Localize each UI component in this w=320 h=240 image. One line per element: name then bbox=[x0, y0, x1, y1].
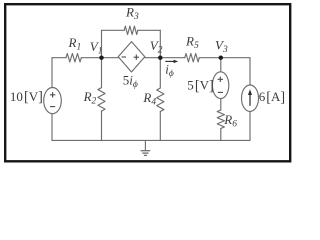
dependent source polarity signs bbox=[122, 55, 139, 60]
wire bottom bbox=[52, 139, 250, 141]
wire top loop right leg bbox=[159, 30, 161, 57]
wire top loop upper left bbox=[102, 29, 125, 31]
wire V1 to R2 bbox=[101, 58, 103, 88]
wire left column upper bbox=[51, 58, 53, 88]
wire R1 to diamond bbox=[81, 57, 118, 59]
resistor R3 bbox=[124, 26, 138, 34]
wire diamond to R5 bbox=[145, 57, 185, 59]
6A source arrow bbox=[248, 89, 252, 106]
wire main left segment bbox=[52, 57, 66, 59]
border frame bbox=[5, 4, 290, 161]
node V3 dot bbox=[219, 55, 224, 60]
5V source polarity bbox=[218, 77, 223, 93]
10V source polarity bbox=[50, 92, 55, 107]
svg-text:5 [V]: 5 [V] bbox=[187, 77, 213, 93]
ground symbol bbox=[141, 151, 151, 156]
resistor R4 bbox=[157, 88, 164, 112]
wire 5V to R6 bbox=[220, 99, 222, 110]
resistor R1 bbox=[66, 54, 81, 62]
wire right column upper bbox=[249, 58, 251, 85]
wire top loop left leg bbox=[101, 30, 103, 57]
wire R2 to bottom bbox=[101, 111, 103, 140]
wire top loop upper right bbox=[138, 29, 161, 31]
node V1 dot bbox=[99, 55, 104, 60]
voltage source V 10V circle bbox=[44, 88, 62, 114]
ground stub bbox=[144, 140, 146, 150]
current source I 6A circle bbox=[242, 85, 259, 111]
wire R4 to bottom bbox=[159, 112, 161, 141]
wire right column lower bbox=[249, 111, 251, 140]
wire V2 to R4 bbox=[159, 58, 161, 88]
i-phi current arrow bbox=[165, 60, 178, 63]
svg-text:6 [A]: 6 [A] bbox=[259, 89, 285, 105]
wire left column lower bbox=[51, 114, 53, 141]
wire V3 down bbox=[220, 58, 222, 72]
dependent source U1 diamond bbox=[118, 42, 145, 72]
resistor R2 bbox=[98, 88, 105, 112]
node V2 dot bbox=[158, 55, 163, 60]
resistor R5 bbox=[185, 54, 200, 62]
wire R6 to bottom bbox=[220, 129, 222, 141]
wire R5 to right corner bbox=[199, 57, 250, 59]
resistor R6 bbox=[217, 110, 224, 128]
svg-text:10 [V]: 10 [V] bbox=[10, 89, 43, 105]
voltage source V 5V circle bbox=[212, 72, 228, 99]
